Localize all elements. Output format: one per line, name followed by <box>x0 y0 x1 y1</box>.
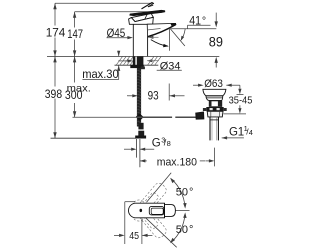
svg-text:8: 8 <box>167 139 171 148</box>
svg-text:41 °: 41 ° <box>189 13 206 27</box>
svg-text:max.180: max.180 <box>157 156 197 168</box>
svg-text:G: G <box>152 138 161 150</box>
svg-text:35-45: 35-45 <box>229 95 253 106</box>
svg-text:Ø63: Ø63 <box>204 78 223 90</box>
svg-text:G1: G1 <box>229 127 244 139</box>
svg-text:45: 45 <box>129 231 139 242</box>
svg-text:89: 89 <box>209 35 223 50</box>
svg-text:50 °: 50 ° <box>176 224 194 236</box>
svg-text:50 °: 50 ° <box>176 186 194 198</box>
svg-text:max.30: max.30 <box>82 67 119 81</box>
svg-text:398: 398 <box>45 87 62 101</box>
svg-text:300: 300 <box>65 88 83 102</box>
svg-text:4: 4 <box>249 128 253 137</box>
svg-text:147: 147 <box>67 27 83 41</box>
svg-text:93: 93 <box>148 88 159 102</box>
svg-text:174: 174 <box>46 25 66 39</box>
